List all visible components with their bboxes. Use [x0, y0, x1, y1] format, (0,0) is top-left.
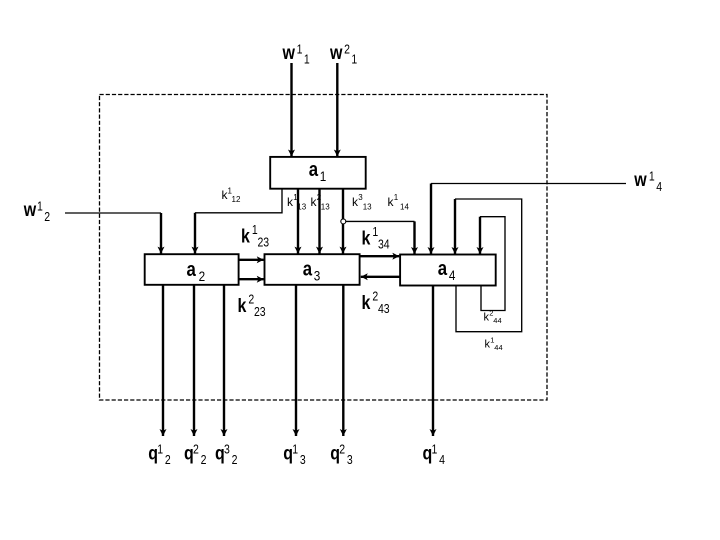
- wire k1_23 upper a2 to a3: [239, 259, 264, 261]
- wire q1_4 output: [432, 286, 434, 437]
- node w1_4 label: [633, 169, 662, 195]
- dashed system boundary: [100, 95, 548, 401]
- label a4: [438, 257, 456, 284]
- wire k2_43 a4 to a3: [361, 276, 400, 278]
- label k1_12: [222, 187, 241, 205]
- label k1_14: [388, 193, 410, 212]
- node w2_1 label: [329, 42, 357, 67]
- wire q1_3 output: [295, 285, 297, 436]
- label k1_34: [362, 226, 391, 251]
- wire q2_3 output: [342, 285, 344, 436]
- label q2_3: [330, 442, 352, 467]
- node w1_1 label: [282, 42, 310, 67]
- box a2: [145, 254, 239, 285]
- wire q1_2 output: [162, 285, 164, 436]
- label k2_23: [238, 294, 266, 319]
- label q3_2: [215, 442, 237, 467]
- wire k1_12 from a1 to a2: [195, 188, 282, 253]
- box a3: [265, 254, 360, 285]
- label a2: [187, 258, 206, 285]
- wire w1_1 to a1: [290, 63, 292, 157]
- wire k2_44 feedback loop: [480, 217, 505, 311]
- wire k1_13 from a1 to a3: [297, 188, 299, 253]
- wire k2_13 from a1 to a3: [318, 188, 320, 253]
- wire w1_4 to a4: [431, 184, 626, 255]
- junction node on k3_13: [341, 219, 346, 224]
- label k2_44: [484, 309, 502, 326]
- label q1_4: [423, 442, 446, 467]
- label q1_3: [283, 442, 305, 467]
- label k1_13: [287, 193, 307, 212]
- wire w1_2 to a2: [65, 213, 161, 254]
- node w1_2 label: [23, 199, 50, 225]
- label k1_23: [241, 224, 269, 249]
- box a4: [400, 255, 496, 286]
- label a3: [303, 257, 321, 284]
- label k2_43: [362, 291, 390, 316]
- wire k1_14 branch to a4: [345, 221, 415, 254]
- wire k1_34 a3 to a4: [360, 255, 400, 257]
- label k3_13: [352, 193, 372, 212]
- label k1_44: [485, 336, 503, 353]
- label k2_13: [311, 193, 331, 212]
- wire q2_2 output: [193, 285, 195, 436]
- box a1: [270, 157, 366, 189]
- wire k1_44 feedback loop: [455, 199, 522, 332]
- wire q3_2 output: [223, 285, 225, 436]
- label q2_2: [184, 442, 206, 467]
- wire w2_1 to a1: [336, 63, 338, 157]
- label q1_2: [148, 442, 170, 467]
- wire k3_13 from a1 to a3: [342, 188, 344, 253]
- label a1: [309, 158, 326, 185]
- wire k1_23 lower a2 to a3: [239, 278, 264, 280]
